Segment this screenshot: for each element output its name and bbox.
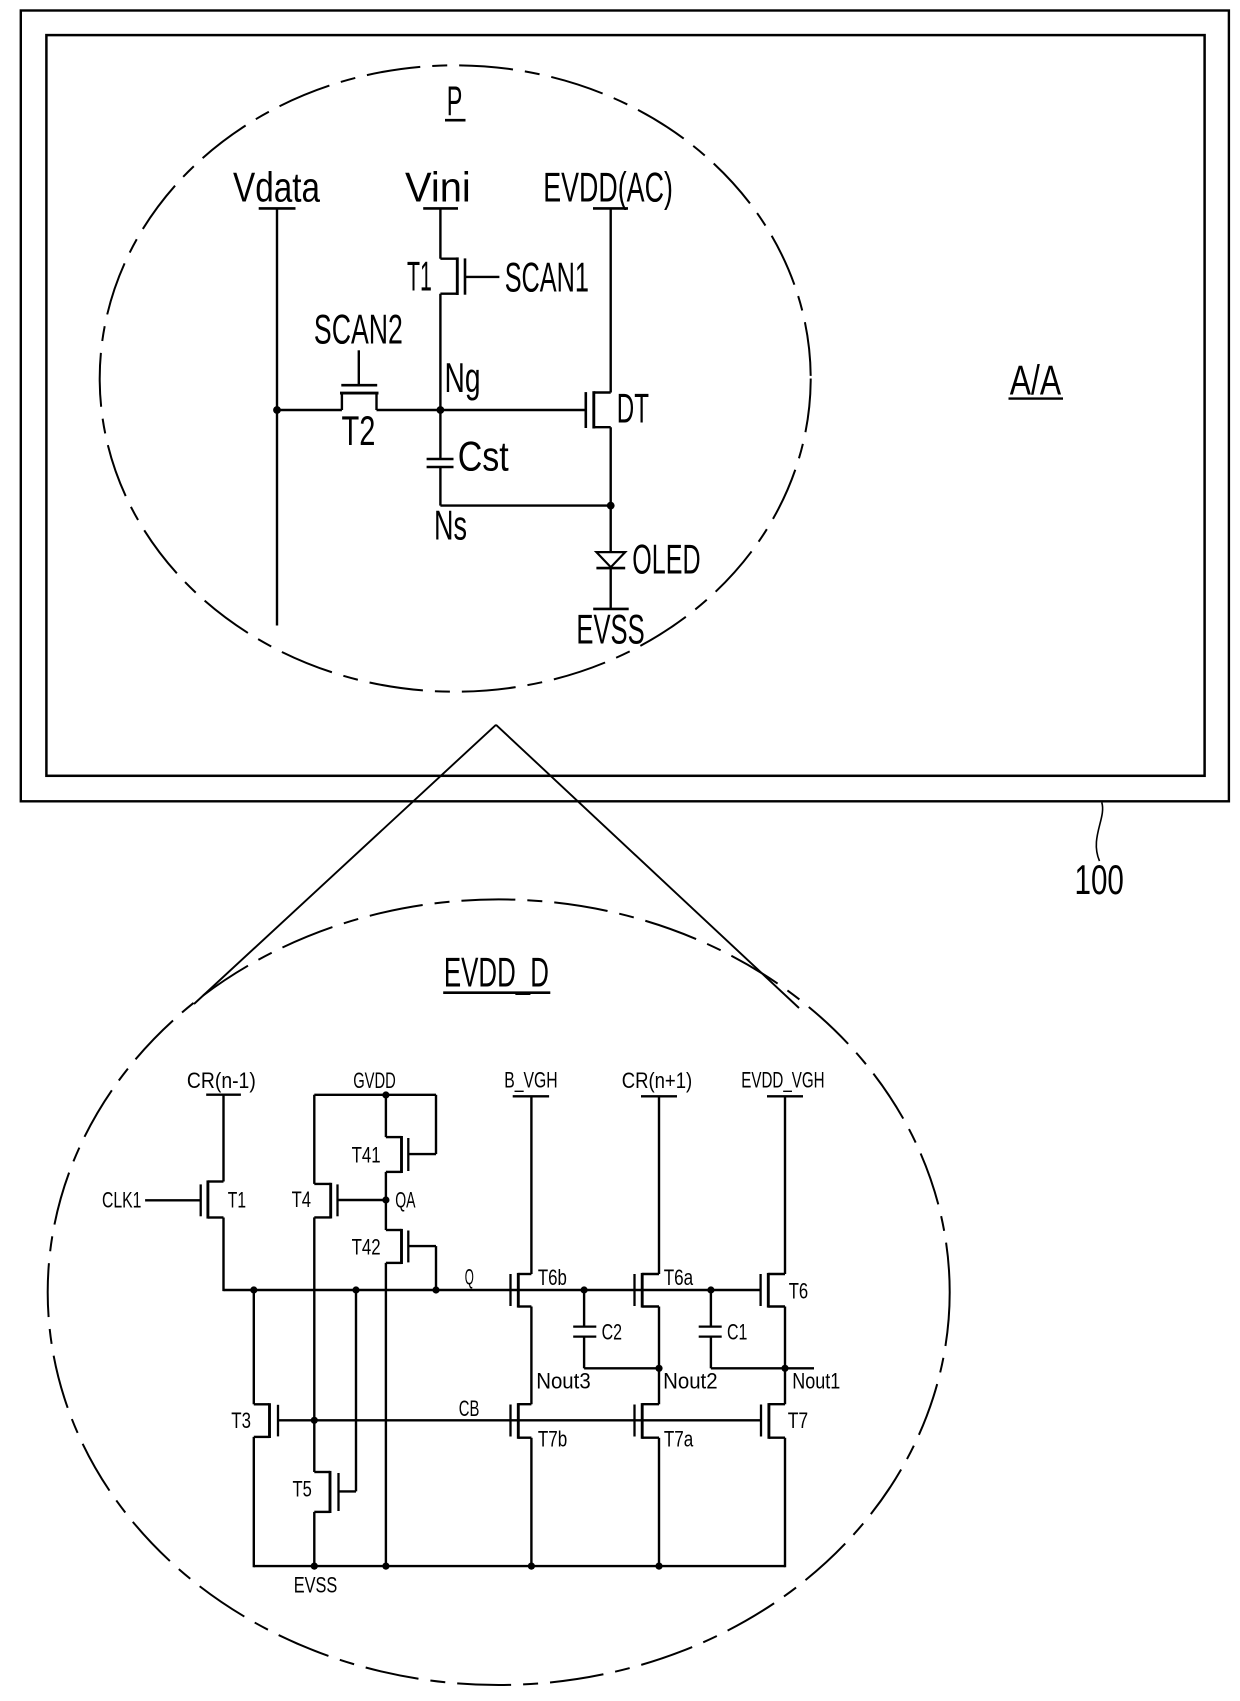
svg-text:P: P (447, 77, 463, 124)
transistor DT (586, 391, 611, 428)
svg-text:T4: T4 (292, 1187, 311, 1212)
wire T6a source to T7a drain through Nout2 (658, 1307, 660, 1405)
svg-text:Vdata: Vdata (233, 163, 321, 210)
pixel circle P (dashed ellipse) (100, 65, 811, 691)
wire T5 gate up to Q (355, 1290, 357, 1491)
diode OLED (596, 552, 625, 609)
transistor T7 (761, 1403, 785, 1439)
transistor T6a (635, 1273, 660, 1308)
svg-text:Cst: Cst (458, 433, 509, 480)
Ng row wire left (277, 409, 342, 411)
node Nout1 junction (781, 1365, 788, 1372)
wire T5 source to EVSS (313, 1512, 315, 1566)
label A/A (1009, 356, 1064, 403)
junction C1 top on Q (707, 1286, 714, 1293)
transistor T7a (635, 1403, 660, 1439)
junction on Vdata (273, 406, 281, 414)
svg-text:OLED: OLED (632, 535, 700, 582)
Ns row wire (440, 504, 610, 506)
svg-text:SCAN2: SCAN2 (314, 306, 403, 353)
transistor T42 (386, 1229, 436, 1264)
wire Q to T3 drain (253, 1290, 255, 1404)
svg-text:QA: QA (395, 1187, 415, 1212)
svg-text:SCAN1: SCAN1 (505, 254, 589, 301)
svg-text:T42: T42 (352, 1235, 381, 1260)
svg-text:Nout2: Nout2 (663, 1369, 718, 1394)
node Ng junction (437, 406, 445, 414)
transistor T41 (386, 1136, 436, 1173)
junction T42 gate on Q (432, 1286, 439, 1293)
wire CB junction down to T5 drain (313, 1420, 315, 1472)
wire C2 bottom to node Nout2 (584, 1367, 659, 1369)
junction T5 source on EVSS (311, 1563, 318, 1570)
CR(n+1) terminal bar (641, 1095, 677, 1097)
wire T6 source to T7 drain through Nout1 (784, 1307, 786, 1405)
svg-text:A/A: A/A (1010, 356, 1061, 403)
junction T4 source on CB (311, 1417, 318, 1424)
svg-text:T7a: T7a (664, 1426, 694, 1451)
svg-text:EVDD_VGH: EVDD_VGH (741, 1067, 824, 1092)
wire T42 gate to Q row (435, 1246, 437, 1290)
svg-text:C2: C2 (602, 1320, 622, 1345)
EVDD_VGH terminal bar (767, 1095, 803, 1097)
capacitor Cst (427, 410, 454, 506)
transistor T6b (511, 1273, 532, 1308)
svg-text:Ng: Ng (445, 354, 481, 401)
Vini terminal bar (423, 207, 458, 210)
transistor T2 (340, 385, 379, 410)
wire T7b source to EVSS (530, 1438, 532, 1566)
svg-text:T7b: T7b (538, 1426, 567, 1451)
svg-text:T6a: T6a (664, 1265, 694, 1290)
svg-text:T41: T41 (352, 1143, 381, 1168)
transistor T5 (314, 1471, 356, 1513)
wire EVDD_VGH to T6 drain (784, 1096, 786, 1274)
svg-text:EVDD(AC): EVDD(AC) (543, 163, 673, 210)
svg-text:Ns: Ns (434, 502, 467, 549)
svg-text:EVSS: EVSS (294, 1573, 338, 1598)
svg-text:T1: T1 (228, 1188, 246, 1213)
svg-text:T2: T2 (342, 407, 376, 454)
svg-text:Vini: Vini (405, 163, 471, 210)
net EVSS row wire (254, 1565, 785, 1567)
svg-text:CR(n+1): CR(n+1) (622, 1068, 693, 1093)
svg-text:EVDD_D: EVDD_D (444, 949, 549, 996)
wire T3 source to EVSS (253, 1437, 255, 1567)
B_VGH terminal bar (513, 1095, 549, 1097)
wire DT source down (610, 427, 612, 552)
svg-text:T3: T3 (231, 1408, 251, 1433)
transistor T1 (driver) (201, 1180, 224, 1218)
wire GVDD to T41 drain (385, 1095, 387, 1137)
svg-text:CLK1: CLK1 (102, 1188, 141, 1213)
GVDD rail wire (314, 1094, 436, 1096)
CLK1 gate wire (145, 1199, 201, 1201)
active area A/A inner frame (46, 35, 1204, 776)
svg-text:C1: C1 (727, 1320, 747, 1345)
svg-text:B_VGH: B_VGH (504, 1067, 557, 1092)
magnifier cone right leg (496, 725, 799, 1008)
Vdata column wire (276, 208, 278, 625)
junction T7a source on EVSS (655, 1563, 662, 1570)
svg-text:CR(n-1): CR(n-1) (187, 1068, 256, 1093)
wire B_VGH to T6b drain (530, 1096, 532, 1274)
label EVDD_D (443, 949, 550, 996)
svg-text:T6: T6 (789, 1279, 808, 1304)
wire T42 source to EVSS row (385, 1263, 387, 1566)
junction T5 gate on Q (352, 1286, 359, 1293)
wire T7a source to EVSS (658, 1438, 660, 1566)
wire Vini to T1 drain (439, 208, 441, 258)
transistor T1 (440, 257, 499, 295)
node Nout2 junction (655, 1365, 662, 1372)
CR(n-1) terminal bar (206, 1094, 241, 1096)
EVSS terminal bar (593, 608, 629, 611)
capacitor C1 (699, 1290, 722, 1368)
junction C2 top on Q (581, 1286, 588, 1293)
GVDD junction (382, 1091, 389, 1098)
svg-text:Nout1: Nout1 (792, 1369, 840, 1394)
wire C1 bottom to node Nout1 (711, 1367, 814, 1369)
wire GVDD left branch to T4 drain (313, 1095, 315, 1184)
svg-text:T6b: T6b (538, 1265, 567, 1290)
wire T41 gate to GVDD rail (435, 1095, 437, 1154)
net CB row wire (278, 1419, 761, 1421)
wire T1 source to node Ng (439, 294, 441, 411)
SCAN2 gate stub (358, 350, 360, 385)
label P (445, 77, 466, 124)
EVDD column wire to DT drain (610, 208, 612, 392)
node QA junction (382, 1196, 389, 1203)
transistor T4 (314, 1183, 386, 1219)
wire T7 source to EVSS right end (784, 1438, 786, 1568)
leader squiggle to 100 (1096, 803, 1102, 862)
Vdata terminal bar (259, 207, 296, 210)
wire CR(n+1) to T6a drain (658, 1096, 660, 1274)
svg-text:Q: Q (465, 1265, 474, 1290)
svg-text:CB: CB (459, 1396, 480, 1421)
svg-text:T7: T7 (788, 1408, 809, 1433)
svg-text:Nout3: Nout3 (536, 1369, 591, 1394)
svg-text:T5: T5 (293, 1477, 312, 1502)
EVDD_D circle (dashed) (48, 899, 950, 1685)
transistor T7b (511, 1403, 532, 1439)
svg-text:EVSS: EVSS (576, 606, 644, 653)
svg-text:T1: T1 (407, 253, 432, 300)
transistor T6 (761, 1273, 785, 1308)
display panel 100 outer frame (21, 11, 1229, 802)
wire CR(n-1) to T1 drain (222, 1095, 224, 1182)
transistor T3 (254, 1403, 278, 1438)
node Ns junction (607, 502, 615, 510)
magnifier cone left leg (194, 725, 496, 1004)
wire T6b source to T7b drain (node Nout3) (530, 1307, 532, 1405)
Ng row wire right (377, 409, 586, 411)
wire T41 source to node QA (385, 1172, 387, 1230)
capacitor C2 (573, 1290, 596, 1368)
junction T7b source on EVSS (528, 1563, 535, 1570)
wire T4 source to CB row (313, 1217, 315, 1421)
EVDD terminal bar (593, 207, 628, 210)
svg-text:DT: DT (617, 385, 649, 432)
svg-text:100: 100 (1075, 856, 1124, 903)
svg-text:GVDD: GVDD (353, 1068, 396, 1093)
net Q row wire (224, 1289, 761, 1291)
junction T42 source on EVSS (382, 1563, 389, 1570)
wire T1 source to Q row (222, 1218, 224, 1292)
junction T3 branch on Q (250, 1286, 257, 1293)
